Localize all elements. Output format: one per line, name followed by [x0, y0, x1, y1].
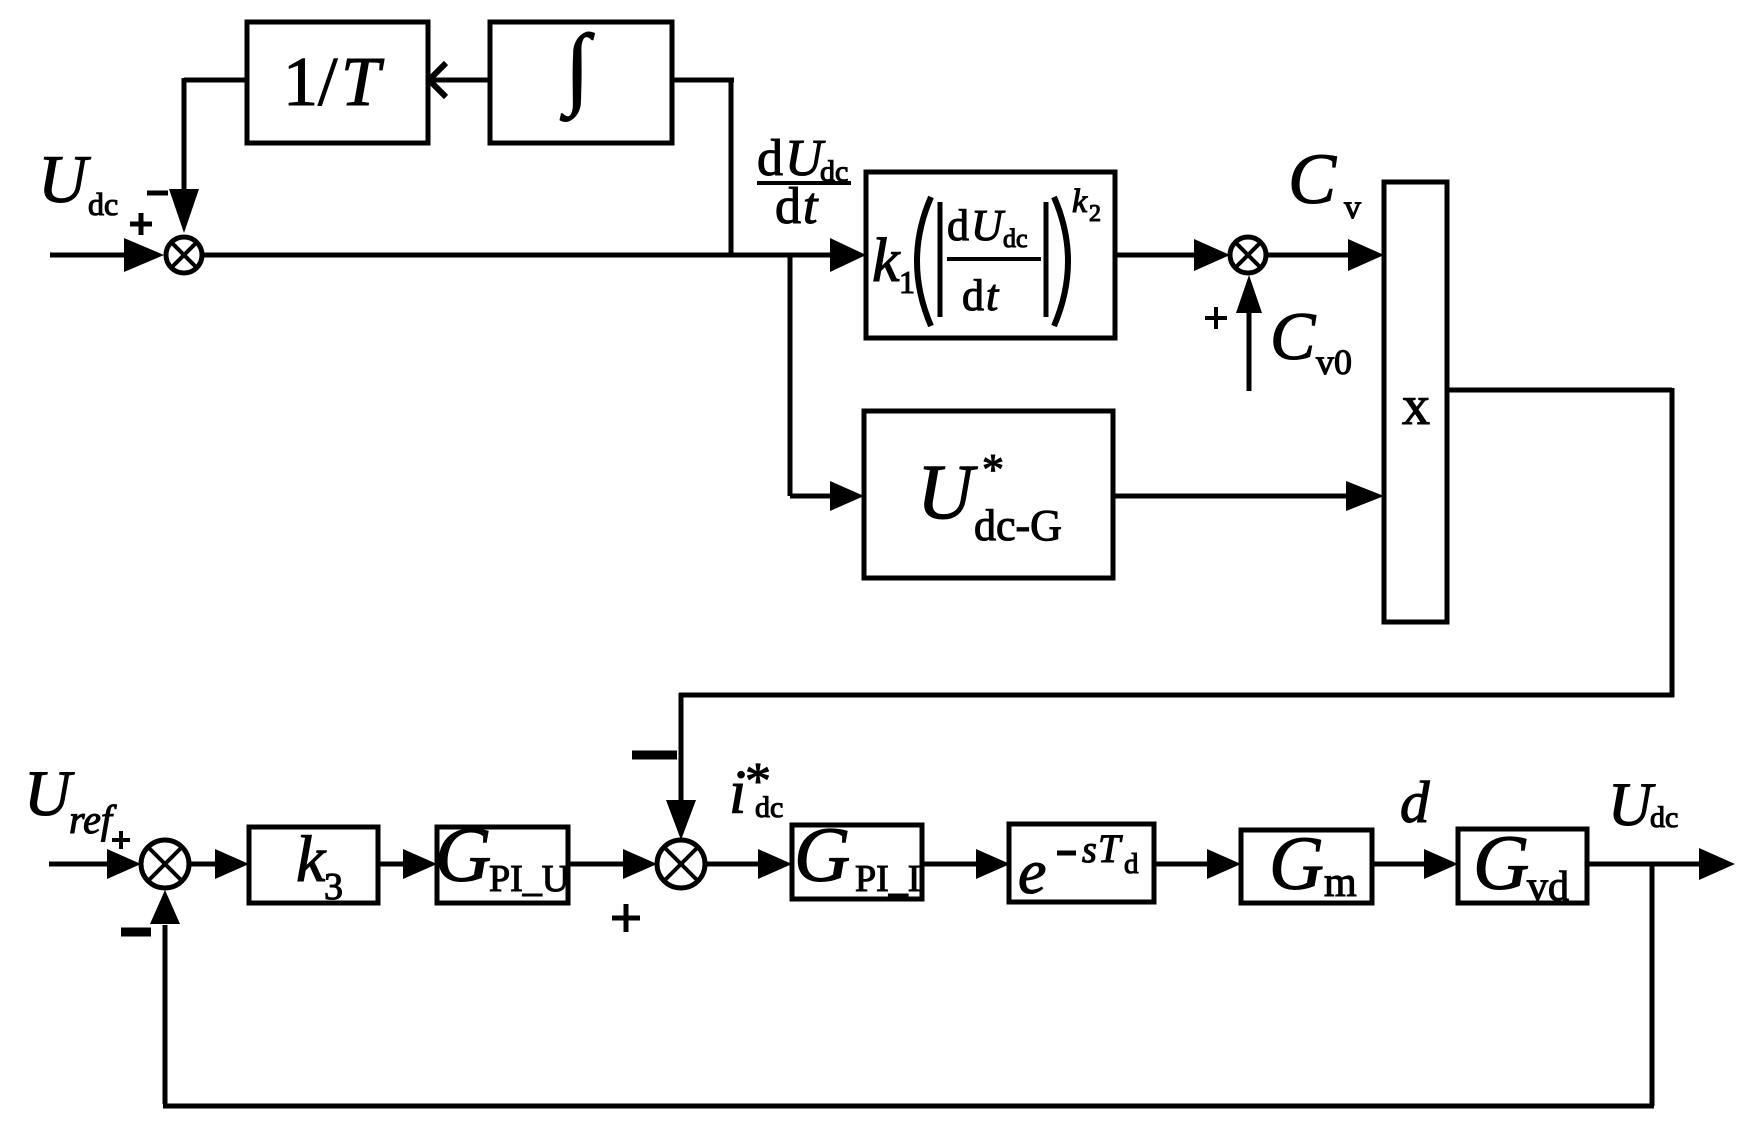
label C_v: [1288, 139, 1361, 226]
svg-text:T: T: [341, 44, 385, 121]
svg-text:2: 2: [1089, 201, 1101, 227]
svg-text:v0: v0: [1316, 342, 1352, 382]
wire output U_dc: [1587, 848, 1735, 880]
integrator block: [490, 16, 672, 143]
svg-text:d: d: [962, 271, 984, 320]
label U_dc (output): [1608, 772, 1678, 839]
svg-text:vd: vd: [1527, 864, 1569, 910]
svg-text:dc-G: dc-G: [974, 501, 1062, 550]
label dU_dc/dt: [757, 130, 851, 235]
block k3: [249, 823, 378, 908]
wire branch up to integrator: [729, 80, 734, 255]
wire delay to G_m: [1154, 849, 1241, 879]
block G_PI_U: [435, 811, 569, 903]
multiplier block x: [1384, 182, 1447, 622]
wire k3 to G_PI_U: [378, 849, 437, 879]
summing junction S3: [141, 840, 189, 888]
svg-text:m: m: [1324, 860, 1357, 906]
svg-text:v: v: [1344, 189, 1361, 226]
svg-text:d: d: [947, 201, 969, 250]
svg-text:ref: ref: [69, 797, 117, 842]
svg-text:dc: dc: [88, 186, 118, 222]
svg-text:k: k: [1072, 183, 1088, 220]
wire S2 to multiplier: [1266, 239, 1384, 271]
svg-text:G: G: [1269, 822, 1324, 906]
summing junction S2: [1230, 237, 1266, 273]
svg-text:1: 1: [899, 264, 915, 300]
wire G_m to G_vd: [1372, 849, 1458, 879]
svg-text:x: x: [1402, 375, 1430, 437]
svg-text:G: G: [794, 811, 850, 898]
svg-text:U: U: [1608, 772, 1656, 839]
svg-text:C: C: [1270, 298, 1316, 374]
summing junction S4: [657, 840, 705, 888]
wire integrator to 1/T with open arrowhead: [428, 63, 490, 97]
wire Udc-G to multiplier: [1113, 481, 1384, 511]
svg-text:s: s: [1082, 829, 1097, 871]
block Udc-G reference: [864, 411, 1113, 578]
wire S3 to k3: [189, 849, 249, 879]
svg-text:e: e: [1018, 836, 1046, 907]
minus sign at S4 top input: [632, 751, 677, 760]
svg-text:3: 3: [324, 866, 343, 908]
plus sign at S1 input: [130, 213, 152, 235]
node label U_ref: [24, 758, 117, 842]
plus sign at S3 input: [112, 831, 130, 849]
svg-text:∫: ∫: [560, 16, 595, 122]
node label U_dc (input): [38, 141, 118, 222]
svg-text:d: d: [1400, 769, 1430, 835]
minus sign at S3 bottom input: [121, 928, 151, 937]
wire multiplier output to lower summing junction S4: [666, 388, 1674, 840]
plus sign at S2 bottom input: [1205, 307, 1227, 329]
svg-text:U: U: [24, 758, 75, 830]
svg-text:dc: dc: [1650, 801, 1678, 834]
svg-text:U: U: [917, 448, 978, 535]
wire S1 output to k1 block: [202, 238, 866, 272]
block G_PI_I: [792, 811, 922, 900]
label i*_dc: [729, 753, 783, 827]
svg-text:dc: dc: [1003, 224, 1028, 253]
wire k1 to S2: [1115, 239, 1230, 271]
svg-text:1/: 1/: [283, 44, 338, 121]
svg-text:*: *: [982, 445, 1004, 494]
wire G_PI_U to S4: [568, 849, 657, 879]
svg-text:U: U: [971, 201, 1006, 250]
wire branch down to Udc-G block: [790, 253, 864, 511]
svg-text:d: d: [1124, 848, 1139, 880]
wire S4 to G_PI_I: [705, 849, 792, 879]
plus sign at S4 left input: [612, 904, 640, 932]
block G_m: [1241, 822, 1372, 906]
block 1/T: [247, 22, 428, 143]
svg-text:T: T: [1098, 826, 1123, 871]
wire input U_dc: [50, 238, 164, 272]
svg-text:C: C: [1288, 139, 1337, 219]
wire C_v0 up into S2: [1236, 275, 1262, 391]
wire G_PI_I to delay: [922, 849, 1010, 879]
minus sign at S1 top input: [147, 191, 168, 196]
wire 1/T output down to S1: [169, 78, 249, 233]
svg-text:i: i: [729, 759, 746, 827]
label C_v0: [1270, 298, 1352, 382]
svg-text:PI_U: PI_U: [489, 858, 569, 900]
summing junction S1: [166, 237, 202, 273]
svg-text:k: k: [296, 823, 327, 896]
svg-text:G: G: [435, 811, 491, 898]
wire input U_ref: [49, 849, 141, 879]
svg-text:U: U: [38, 141, 91, 217]
svg-text:dc: dc: [755, 791, 783, 824]
wire feedback from output to S3: [150, 864, 1654, 1106]
block G_vd: [1458, 819, 1587, 910]
svg-text:PI_I: PI_I: [855, 858, 920, 900]
svg-text:t: t: [986, 271, 1000, 320]
svg-text:t: t: [803, 178, 819, 235]
block e^-sTd: [1009, 824, 1154, 907]
block k1(|dU/dt|)^k2: [866, 172, 1115, 338]
svg-text:d: d: [775, 178, 801, 235]
svg-text:G: G: [1473, 819, 1529, 906]
svg-text:k: k: [872, 227, 901, 295]
wire integrator input from branch: [672, 78, 734, 83]
